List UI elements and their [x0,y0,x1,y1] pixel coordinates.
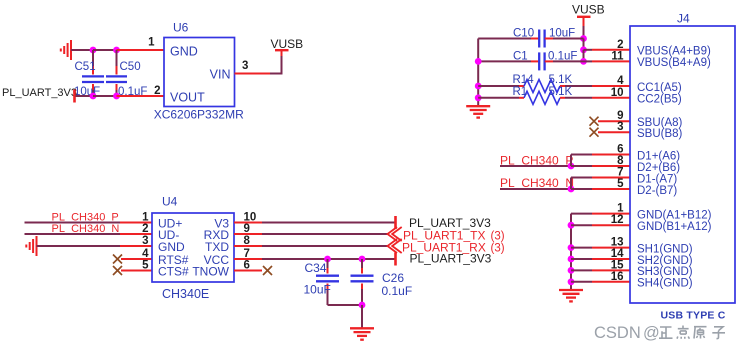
svg-text:C26: C26 [382,271,404,285]
svg-text:10uF: 10uF [549,28,575,40]
svg-text:0.1uF: 0.1uF [548,51,577,63]
svg-text:C1: C1 [513,51,528,63]
watermark hanzi ZHENG [659,327,673,338]
svg-text:0.1uF: 0.1uF [382,284,413,298]
node junction C51 top [90,47,97,54]
pin 2 stub (U4 UD-) [120,233,152,235]
wire C50 top to U6 pin 1 [117,49,165,51]
svg-text:5: 5 [617,178,624,190]
power stub tick PL_UART_3V3 (pin 7) [394,253,397,266]
svg-text:(3): (3) [491,231,505,243]
wire left rail vertical [477,39,479,106]
node junction D1-/D2- [568,186,575,193]
svg-text:4: 4 [142,248,149,260]
svg-text:C50: C50 [120,61,141,73]
node junction C50 bottom [113,93,120,100]
pin 5 stub (J4 D2-) [592,188,630,190]
svg-text:CSDN: CSDN [594,324,641,342]
svg-text:15: 15 [611,259,624,271]
wire PL_CH340_P to U4 pin 1 [25,222,121,224]
svg-text:14: 14 [611,248,624,260]
svg-text:3: 3 [242,60,248,72]
svg-text:U6: U6 [173,21,189,35]
power stub tick PL_UART_3V3 (pin 10) [394,216,397,229]
svg-text:SH3(GND): SH3(GND) [637,266,693,278]
capacitor C26 [351,259,374,305]
svg-text:2: 2 [142,223,148,235]
svg-text:SBU(B8): SBU(B8) [637,128,683,140]
pin 3 stub (J4 SBU) [598,131,630,133]
svg-text:12: 12 [611,214,624,226]
svg-text:TNOW: TNOW [192,265,229,279]
wire riser to pin 7 [571,177,592,179]
wire C34 bottom to C26 bottom [328,304,363,306]
wire riser to pin 6 [571,154,592,156]
wire riser D1- [570,178,572,190]
pin 2 stub (J4 VBUS) [592,49,630,51]
svg-text:VBUS(A4+B9): VBUS(A4+B9) [637,46,711,58]
power port bar VUSB (U6) [275,49,289,51]
svg-text:CC2(B5): CC2(B5) [637,94,682,106]
pin 9 stub (U4 RXD) [234,233,262,235]
wire corner to VUSB riser [270,73,282,75]
pin 15 stub (J4) [592,269,630,271]
pin 11 stub (J4 VBUS) [592,60,630,62]
wire GND elbow pin 1 [571,213,592,215]
svg-text:11: 11 [611,50,624,62]
svg-text:2: 2 [617,39,623,51]
wire VUSB riser to C10 [583,26,585,39]
off-sheet chevron PL_UART1_TX [388,227,402,241]
svg-text:7: 7 [617,167,623,179]
wire pin 2 from riser [584,49,593,51]
svg-text:XC6206P332MR: XC6206P332MR [154,108,244,122]
pin 3 stub (U4 GND) [120,245,152,247]
node junction C51 bottom [90,93,97,100]
node junction rail/R14 [475,83,482,90]
node junction GND rail pin 15 [568,267,575,274]
pin 8 stub (U4 TXD) [234,245,262,247]
wire VUSB stem [583,17,585,26]
svg-text:10uF: 10uF [304,283,331,297]
pin 4 stub (J4 CC1) [592,85,630,87]
node junction C50 top [113,47,120,54]
node junction C34 top [324,256,331,263]
ground symbol (J4 CC rail) [466,106,490,117]
pin 7 stub (J4 D1-) [592,177,630,179]
pin 7 stub (U4 VCC) [234,258,262,260]
capacitor C51 [82,50,104,96]
wire GND rail to pin 14 [571,258,592,260]
power stub tick PL_UART_3V3 [73,90,76,103]
svg-text:VBUS(B4+A9): VBUS(B4+A9) [637,57,711,69]
svg-text:D2+(B6): D2+(B6) [637,162,680,174]
svg-text:SH2(GND): SH2(GND) [637,255,693,267]
svg-text:6: 6 [617,144,623,156]
ground symbol (J4 GND rail) [559,290,583,301]
power port bar VUSB (J4) [577,16,591,18]
no-connect X (U4 RTS#) [113,255,122,264]
node junction GND rail pin 14 [568,256,575,263]
resistor R14 [519,80,565,93]
wire riser D1+ [570,155,572,167]
wire ground to U4 pin 3 [37,245,121,247]
pin 4 stub (U4 RTS#) [121,258,152,260]
wire left rail to C1 [478,60,531,62]
svg-text:VUSB: VUSB [271,37,304,51]
wire rail to R14 [478,85,519,87]
svg-text:PL_UART_3V3: PL_UART_3V3 [2,87,77,99]
pin 9 stub (J4 SBU) [598,120,630,122]
pin 1 stub (J4 GND) [592,213,630,215]
svg-text:C34: C34 [305,261,327,275]
svg-text:R1: R1 [513,86,528,98]
node junction rail/C1 [475,58,482,65]
off-sheet chevron PL_UART1_RX [388,239,402,253]
node junction VBUS pin 2 [580,46,587,53]
svg-text:VIN: VIN [210,68,231,82]
resistor R1 [519,91,565,104]
svg-text:1: 1 [148,37,155,49]
wire riser pin 2 to C1 row [583,50,585,62]
svg-text:U4: U4 [162,195,178,209]
watermark hanzi DIAN [677,326,689,339]
svg-text:D1+(A6): D1+(A6) [637,150,680,162]
wire C51 top to C50 top [93,49,117,51]
svg-text:D1-(A7): D1-(A7) [637,173,677,185]
wire PL_CH340_N [500,188,571,190]
svg-text:C10: C10 [513,28,534,40]
wire left rail to C10 [478,38,531,40]
pin 14 stub (J4) [592,258,630,260]
svg-text:@: @ [643,324,660,342]
wire ground to C51 top [71,49,93,51]
no-connect X (U4 CTS#) [113,266,122,275]
wire GND rail to pin 13 [571,247,592,249]
capacitor C1 [531,52,584,70]
node junction VUSB/C10 [580,35,587,42]
svg-text:1: 1 [617,203,624,215]
svg-text:(3): (3) [491,243,505,255]
svg-text:SH1(GND): SH1(GND) [637,243,693,255]
wire R1 to pin 10 [565,97,592,99]
svg-text:D2-(B7): D2-(B7) [637,185,677,197]
pin 6 stub (U4 TNOW) [234,270,262,272]
svg-text:5.1K: 5.1K [549,86,573,98]
no-connect X (U4 TNOW) [263,266,272,275]
svg-text:PL_CH340_N: PL_CH340_N [500,176,574,190]
svg-text:1: 1 [142,212,149,224]
wire C51 bottom to C50 bottom [93,95,117,97]
node junction GND rail pin 16 [568,278,575,285]
svg-text:CH340E: CH340E [162,287,209,301]
pin 6 stub (J4 D1+) [592,154,630,156]
watermark hanzi ZI [712,327,725,339]
svg-text:J4: J4 [677,12,690,26]
svg-text:PL_UART_3V3: PL_UART_3V3 [410,252,492,266]
svg-text:SH4(GND): SH4(GND) [637,278,693,290]
wire tick to C51 bottom [76,95,94,97]
svg-text:2: 2 [154,85,160,97]
wire V3 to PL_UART_3V3 [262,222,395,224]
svg-text:4: 4 [617,75,624,87]
node junction C26 top [359,256,366,263]
svg-text:C51: C51 [75,61,96,73]
svg-text:CTS#: CTS# [158,265,189,279]
wire riser C10 to pin 2 row [583,39,585,50]
pin 10 stub (J4 CC2) [592,97,630,99]
wire pin 11 from C1 [584,60,593,62]
wire TXD to off-sheet [262,245,388,247]
svg-text:R14: R14 [513,74,535,86]
capacitor C34 [316,259,339,305]
svg-text:16: 16 [611,271,624,283]
svg-text:GND: GND [170,45,198,59]
svg-text:5.1K: 5.1K [549,74,573,86]
svg-text:3: 3 [617,121,623,133]
wire GND rail to pin 16 [571,281,592,283]
wire R14 to pin 4 [565,85,592,87]
wire VUSB riser [281,56,283,74]
wire GND rail to pin 15 [571,269,592,271]
node junction C26 bottom [359,302,366,309]
wire C50 bottom to U6 pin 2 [117,95,165,97]
svg-text:13: 13 [611,237,624,249]
svg-text:GND(B1+A12): GND(B1+A12) [637,221,712,233]
ground symbol (U6 input rail) [61,40,71,60]
wire U6 pin 3 (VIN) [235,73,271,75]
wire rail to R1 [478,97,519,99]
wire down to ground (C26) [361,305,363,328]
svg-text:GND(A1+B12): GND(A1+B12) [637,209,712,221]
op-amp U6 body [164,38,235,107]
connector J4 body [630,26,735,303]
capacitor C10 [531,30,584,48]
no-connect X (J4 SBU pin 9) [590,117,599,126]
svg-text:TXD: TXD [205,240,229,254]
ground symbol (U4 GND) [26,236,36,256]
capacitor C50 [106,50,127,96]
wire GND rail vertical [570,214,572,290]
svg-text:CC1(A5): CC1(A5) [637,82,682,94]
node junction GND rail pin 13 [568,244,575,251]
wire GND rail to pin 12 [571,224,592,226]
svg-text:USB TYPE C: USB TYPE C [661,310,726,322]
pin 13 stub (J4) [592,247,630,249]
svg-text:3: 3 [142,235,148,247]
svg-text:5: 5 [142,260,149,272]
pin 1 stub (U4 UD+) [120,222,152,224]
ground symbol (C34/C26) [350,328,374,339]
pin 10 stub (U4 V3) [234,222,262,224]
transistor U4 body (CH340E) [152,213,234,282]
watermark hanzi YUAN [694,327,707,339]
wire junction to pin 5 [571,188,592,190]
node junction D1+/D2+ [568,163,575,170]
wire PL_CH340_N to U4 pin 2 [25,233,121,235]
svg-text:VUSB: VUSB [572,3,605,17]
svg-text:GND: GND [158,240,185,254]
node junction rail/R1 [475,94,482,101]
pin 12 stub (J4) [592,224,630,226]
pin 8 stub (J4 D2+) [592,165,630,167]
svg-text:VOUT: VOUT [170,91,205,105]
node junction GND rail pin 12 [568,222,575,229]
wire VUSB stem [281,51,283,57]
wire RXD to off-sheet [262,233,388,235]
no-connect X (J4 SBU pin 3) [590,128,599,137]
node junction VBUS pin 11 / C1 [580,58,587,65]
svg-text:8: 8 [617,155,624,167]
pin 5 stub (U4 CTS#) [121,270,152,272]
svg-text:10: 10 [611,87,624,99]
wire junction to pin 8 [571,165,592,167]
wire VCC to PL_UART_3V3 [262,258,395,260]
wire PL_CH340_P [500,165,571,167]
pin 16 stub (J4) [592,281,630,283]
